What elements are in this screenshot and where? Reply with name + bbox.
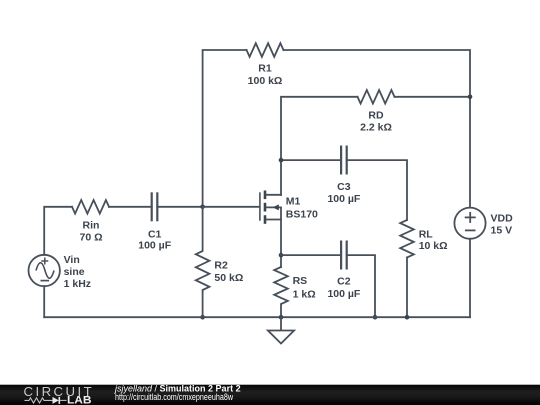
transistor M1 BS170 <box>260 191 318 224</box>
wire RD right lead to VDD rail <box>395 96 471 98</box>
footer logo CIRCUIT LAB <box>24 384 95 405</box>
svg-text:100 µF: 100 µF <box>138 240 171 252</box>
capacitor C2 <box>327 241 360 301</box>
capacitor C3 <box>327 146 360 206</box>
svg-text:100 µF: 100 µF <box>327 288 360 300</box>
svg-text:sine: sine <box>64 266 85 278</box>
junction drain node / C3 <box>279 158 284 163</box>
resistor R1 <box>247 43 284 87</box>
svg-text:Vin: Vin <box>64 254 80 266</box>
wire top rail left segment (node N1 top) <box>203 50 247 207</box>
footer bar <box>0 385 540 405</box>
svg-text:http://circuitlab.com/cmxepnee: http://circuitlab.com/cmxepneeuha8w <box>115 392 233 402</box>
junction source node / C2 <box>279 253 284 258</box>
svg-text:1 kHz: 1 kHz <box>64 278 91 290</box>
svg-text:Rin: Rin <box>83 219 100 231</box>
resistor RD <box>358 90 395 134</box>
ground <box>268 317 294 343</box>
svg-text:10 kΩ: 10 kΩ <box>419 240 448 252</box>
svg-text:R1: R1 <box>258 62 272 74</box>
source VDD battery <box>454 208 513 239</box>
svg-text:RD: RD <box>368 110 384 122</box>
resistor R2 <box>196 207 243 317</box>
wire C1 to gate node <box>157 206 202 208</box>
svg-text:RL: RL <box>419 229 434 241</box>
junction VDD rail / RD <box>468 95 473 100</box>
capacitor C1 <box>138 192 171 251</box>
junction C2 / ground rail <box>373 315 378 320</box>
source Vin sine <box>29 254 92 290</box>
svg-text:1 kΩ: 1 kΩ <box>293 288 316 300</box>
wire Vin bottom lead <box>43 286 45 317</box>
svg-text:2.2 kΩ: 2.2 kΩ <box>360 122 392 134</box>
svg-text:LAB: LAB <box>67 395 92 405</box>
wire input left lead <box>44 207 72 255</box>
svg-text:100 kΩ: 100 kΩ <box>248 75 283 87</box>
svg-text:R2: R2 <box>214 260 228 272</box>
resistor RS <box>274 267 315 317</box>
wire Rin to C1 <box>109 206 152 208</box>
wire drain node vertical <box>281 97 358 195</box>
wire C2 branch right down <box>347 255 375 317</box>
wire gate lead <box>203 206 259 208</box>
svg-text:C2: C2 <box>337 276 351 288</box>
svg-text:BS170: BS170 <box>286 209 318 221</box>
svg-text:100 µF: 100 µF <box>327 193 360 205</box>
wire RL bottom lead <box>406 258 408 318</box>
svg-text:C1: C1 <box>148 228 162 240</box>
wire top rail right segment to VDD rail <box>284 50 471 208</box>
junction RL / ground rail <box>405 315 410 320</box>
resistor RL <box>400 220 447 258</box>
wire C3 branch left <box>281 159 341 161</box>
svg-text:15 V: 15 V <box>491 224 513 236</box>
junction gate node N1 <box>200 205 205 210</box>
svg-text:VDD: VDD <box>491 213 514 225</box>
svg-text:C3: C3 <box>337 181 351 193</box>
junction R2 / ground rail <box>200 315 205 320</box>
svg-text:M1: M1 <box>286 196 301 208</box>
wire source node vertical <box>280 220 282 268</box>
footer title text <box>114 383 241 402</box>
wire C2 branch left <box>281 254 341 256</box>
svg-text:RS: RS <box>293 275 308 287</box>
svg-text:50 kΩ: 50 kΩ <box>214 272 243 284</box>
wire VDD bottom lead <box>469 239 471 317</box>
svg-text:70 Ω: 70 Ω <box>79 231 102 243</box>
wire ground rail <box>44 316 470 318</box>
wire C3 branch right down to RL <box>347 160 407 220</box>
resistor Rin <box>72 200 109 243</box>
junction RS / ground rail <box>279 315 284 320</box>
